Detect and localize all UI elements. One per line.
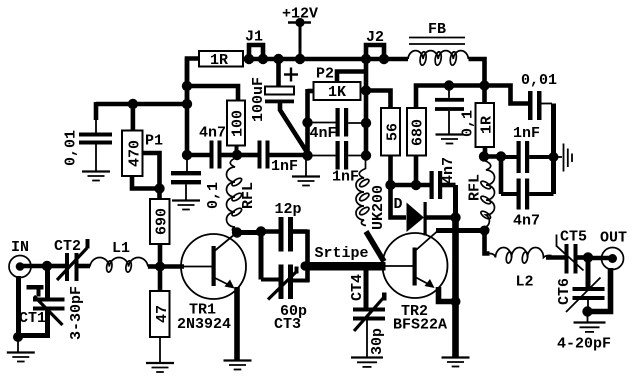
svg-text:1K: 1K: [328, 84, 346, 101]
svg-text:BFS22A: BFS22A: [393, 317, 447, 334]
svg-text:L2: L2: [516, 274, 534, 291]
svg-text:UK200: UK200: [370, 185, 387, 230]
svg-text:100: 100: [230, 110, 247, 137]
svg-text:P2: P2: [316, 66, 334, 83]
svg-text:0,01: 0,01: [521, 72, 557, 89]
svg-text:OUT: OUT: [600, 230, 627, 247]
svg-text:0,1: 0,1: [460, 110, 477, 137]
svg-text:680: 680: [410, 119, 427, 146]
svg-text:4nF: 4nF: [310, 125, 337, 142]
svg-text:4n7: 4n7: [513, 213, 540, 230]
svg-text:1nF: 1nF: [513, 125, 540, 142]
svg-text:CT3: CT3: [274, 316, 301, 333]
svg-text:L1: L1: [112, 240, 130, 257]
svg-text:30p: 30p: [369, 328, 386, 355]
svg-text:690: 690: [154, 208, 171, 235]
svg-text:CT4: CT4: [349, 274, 366, 301]
svg-text:100uF: 100uF: [250, 77, 267, 122]
svg-text:2N3924: 2N3924: [177, 316, 231, 333]
svg-text:1nF: 1nF: [332, 169, 359, 186]
svg-text:CT6: CT6: [556, 278, 573, 305]
svg-text:470: 470: [127, 140, 144, 167]
svg-text:1R: 1R: [210, 52, 228, 69]
svg-text:P1: P1: [145, 133, 163, 150]
svg-text:4n7: 4n7: [199, 125, 226, 142]
svg-text:4-20pF: 4-20pF: [557, 336, 611, 353]
svg-text:IN: IN: [11, 239, 29, 256]
svg-text:CT1: CT1: [19, 310, 46, 327]
svg-text:Srtipe: Srtipe: [315, 245, 369, 262]
svg-text:RFL: RFL: [240, 182, 257, 209]
svg-text:FB: FB: [428, 21, 446, 38]
svg-text:0,1: 0,1: [205, 182, 222, 209]
svg-text:3-30pF: 3-30pF: [68, 286, 85, 340]
svg-text:12p: 12p: [275, 201, 302, 218]
svg-text:CT2: CT2: [54, 238, 81, 255]
svg-text:4n7: 4n7: [440, 157, 457, 184]
svg-text:D: D: [394, 196, 403, 213]
svg-text:1nF: 1nF: [271, 158, 298, 175]
svg-text:56: 56: [385, 123, 402, 141]
svg-text:1R: 1R: [479, 116, 496, 134]
svg-text:47: 47: [154, 305, 171, 323]
svg-text:CT5: CT5: [560, 229, 587, 246]
svg-text:0,01: 0,01: [63, 130, 80, 166]
